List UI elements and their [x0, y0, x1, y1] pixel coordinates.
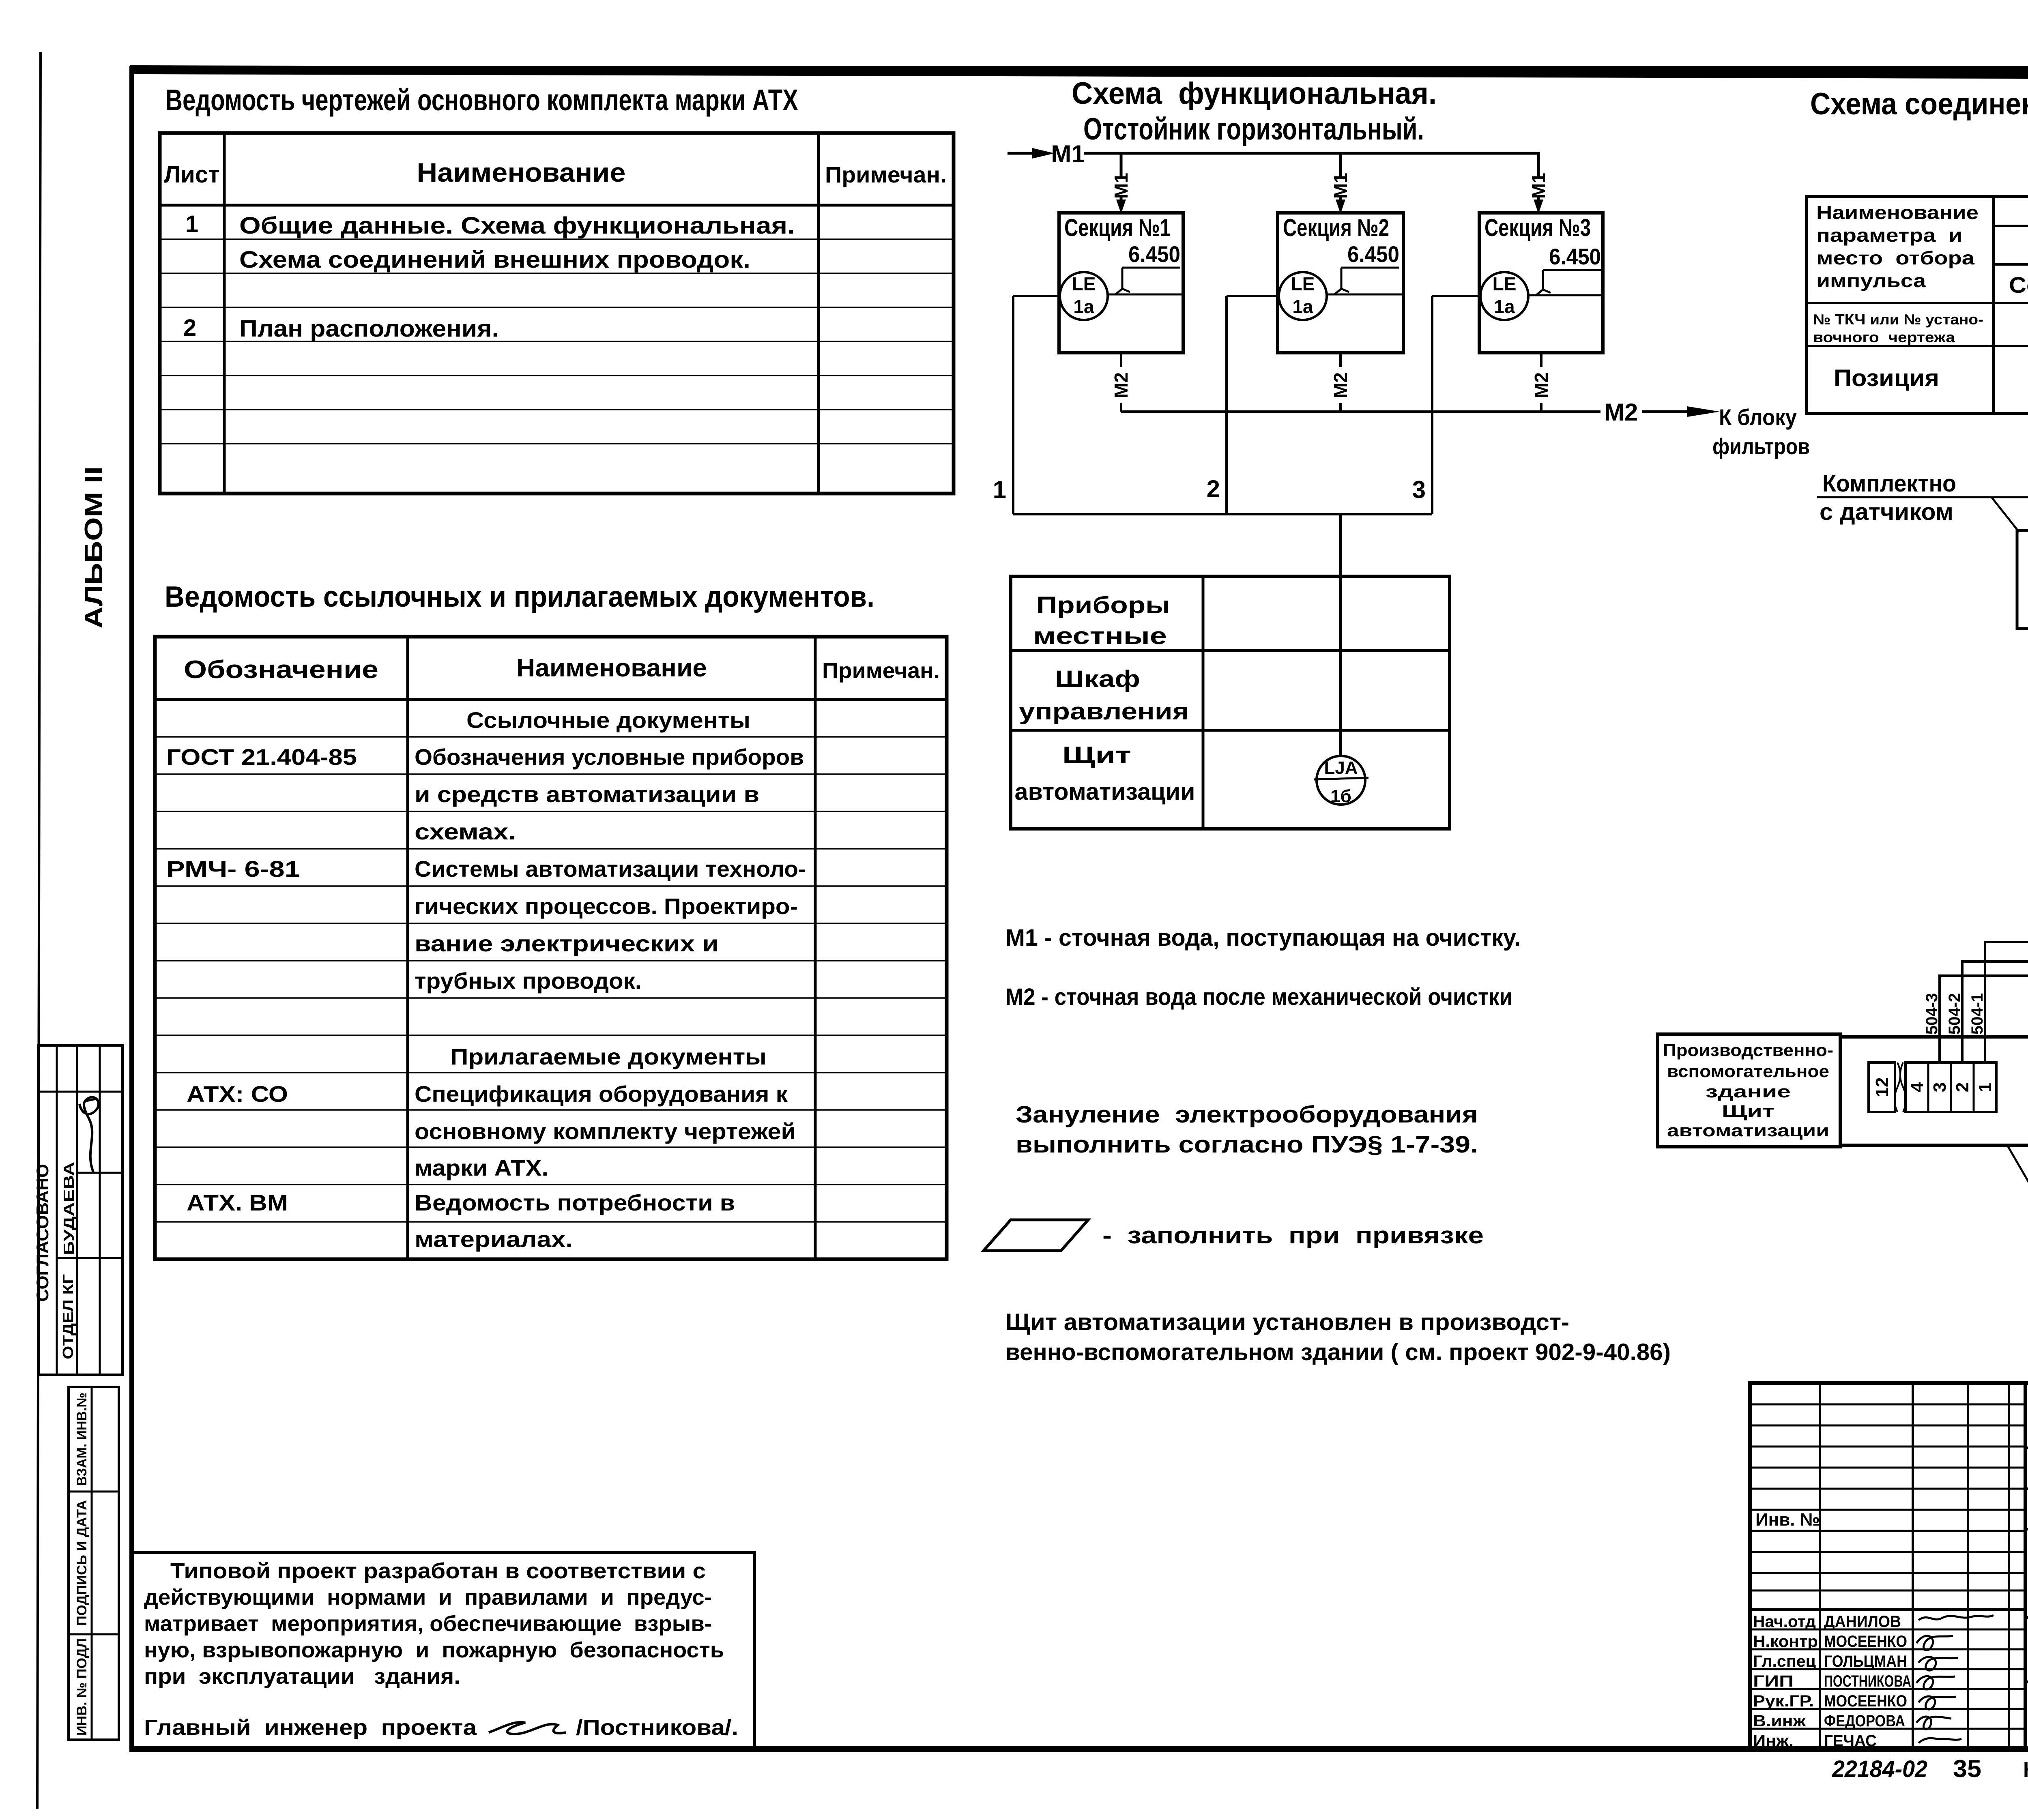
svg-text:Копировал Еремченко: Копировал Еремченко [2023, 1758, 2028, 1782]
sidebar upper block (Согласовано) [39, 1045, 122, 1375]
wire from LE3 to riser 3 [1432, 295, 1480, 297]
svg-text:вание электрических и: вание электрических и [415, 931, 719, 956]
location table (Приборы/Шкаф/Щит) [1011, 576, 1450, 829]
svg-text:2: 2 [1953, 1082, 1972, 1092]
terminal group 1 [1869, 1062, 1996, 1112]
riser wire 2 [1225, 296, 1228, 514]
svg-text:22184-02: 22184-02 [1832, 1756, 1927, 1782]
parameter table left head [1816, 202, 1979, 291]
wire M2 collector [1121, 410, 1600, 413]
svg-text:М1: М1 [1528, 173, 1549, 199]
svg-text:ПОСТНИКОВА: ПОСТНИКОВА [1824, 1672, 1911, 1690]
title block frame [1750, 1383, 2028, 1749]
svg-text:ГИП: ГИП [1753, 1672, 1794, 1690]
svg-text:1: 1 [993, 476, 1006, 503]
svg-text:ГОЛЬЦМАН: ГОЛЬЦМАН [1824, 1653, 1907, 1670]
svg-text:Гл.спец: Гл.спец [1753, 1653, 1816, 1670]
panel cabinet box [1840, 1037, 2028, 1145]
svg-text:действующими нормами и прав: действующими нормами и правилами и преду… [144, 1585, 712, 1610]
svg-text:Схема соединений внешних про: Схема соединений внешних проводок [1810, 87, 2028, 121]
svg-text:выполнить согласно ПУЭ§ 1-7-39: выполнить согласно ПУЭ§ 1-7-39. [1016, 1131, 1478, 1158]
callout LJA КИП поз.1б [2008, 1146, 2028, 1267]
title block left rows [1750, 1404, 2025, 1729]
svg-text:Нач.отд: Нач.отд [1753, 1613, 1816, 1631]
svg-text:Н.контр: Н.контр [1753, 1633, 1818, 1650]
svg-text:ИНВ. № ПОДЛ: ИНВ. № ПОДЛ [74, 1638, 90, 1736]
svg-text:12: 12 [1872, 1077, 1892, 1097]
wire from LE1 to riser 1 [1013, 295, 1060, 297]
svg-text:Общие данные. Схема функционал: Общие данные. Схема функциональная. [239, 212, 795, 239]
riser wire 3 [1431, 296, 1433, 514]
svg-text:Примечан.: Примечан. [825, 162, 947, 187]
riser wire 1 [1012, 296, 1014, 514]
svg-text:Спецификация оборудования к: Спецификация оборудования к [415, 1081, 788, 1107]
svg-text:ГОСТ 21.404-85: ГОСТ 21.404-85 [166, 744, 357, 770]
svg-text:1: 1 [185, 211, 198, 237]
svg-text:гических процессов. Проектиро-: гических процессов. Проектиро- [415, 893, 798, 919]
title block middle dividers [2025, 1383, 2028, 1749]
svg-text:/Постникова/.: /Постникова/. [576, 1715, 738, 1740]
svg-text:БУДАЕВА: БУДАЕВА [60, 1162, 77, 1255]
svg-text:Ссылочные документы: Ссылочные документы [466, 707, 750, 733]
wire M1 drop to section 3 [1528, 152, 1549, 214]
svg-text:Секция №3: Секция №3 [1484, 214, 1591, 241]
svg-text:Примечан.: Примечан. [822, 659, 940, 683]
symbol parallelogram legend [984, 1220, 1088, 1251]
svg-text:Ведомость ссылочных и прилагае: Ведомость ссылочных и прилагаемых докуме… [165, 581, 874, 613]
svg-text:В.инж: В.инж [1753, 1712, 1806, 1730]
instrument LE 1a section 1 [1060, 272, 1108, 320]
svg-text:местные: местные [1033, 623, 1167, 649]
panel label box [1658, 1034, 1840, 1147]
svg-text:и средств автоматизации в: и средств автоматизации в [415, 781, 759, 807]
svg-text:LE: LE [1493, 273, 1517, 294]
wire M2 outlet section 1 [1111, 353, 1132, 412]
wire M1 drop to section 2 [1330, 153, 1351, 214]
bus 3 (wires -3) [1940, 976, 2028, 1062]
svg-text:Ведомость чертежей основного к: Ведомость чертежей основного комплекта м… [165, 83, 798, 117]
svg-text:Зануление электрооборудования: Зануление электрооборудования [1016, 1101, 1478, 1128]
svg-text:1б: 1б [1330, 786, 1351, 806]
svg-text:LE: LE [1291, 273, 1315, 294]
svg-text:М1: М1 [1111, 173, 1132, 199]
svg-text:Секция №1: Секция №1 [1064, 214, 1171, 241]
svg-text:фильтров: фильтров [1712, 434, 1810, 459]
svg-text:место отбора: место отбора [1816, 247, 1975, 268]
svg-text:504-2: 504-2 [1946, 993, 1964, 1034]
svg-text:ФЕДОРОВА: ФЕДОРОВА [1824, 1712, 1905, 1730]
svg-text:М1: М1 [1330, 173, 1351, 199]
svg-text:4: 4 [1907, 1082, 1927, 1092]
instrument LE 1a section 2 [1279, 272, 1327, 320]
svg-text:ВЗАМ. ИНВ.№: ВЗАМ. ИНВ.№ [74, 1393, 90, 1486]
level line section 3 [1528, 294, 1603, 296]
wire M1 inlet arrow [1008, 148, 1055, 159]
svg-text:Инв. №: Инв. № [1755, 1510, 1820, 1530]
level mark 6.450 section 3 [1536, 244, 1602, 295]
wire M1 drop to section 1 [1111, 153, 1132, 214]
svg-text:ПОДПИСЬ И ДАТА: ПОДПИСЬ И ДАТА [74, 1500, 90, 1626]
instrument LJA 1б panel bubble [1314, 756, 1368, 806]
svg-text:МОСЕЕНКО: МОСЕЕНКО [1824, 1692, 1907, 1710]
svg-text:Приборы: Приборы [1036, 592, 1170, 618]
level mark 6.450 section 2 [1334, 241, 1399, 294]
svg-text:3: 3 [1930, 1082, 1950, 1092]
svg-text:Шкаф: Шкаф [1055, 666, 1140, 692]
svg-text:2: 2 [183, 315, 196, 341]
svg-text:Секция №2: Секция №2 [1283, 214, 1389, 241]
signature squiggles [1916, 1615, 1994, 1743]
svg-text:1a: 1a [1073, 296, 1094, 317]
svg-text:схемах.: схемах. [415, 819, 516, 844]
disclaimer box [132, 1552, 754, 1749]
wire M2 outlet section 2 [1330, 353, 1351, 412]
svg-text:МОСЕЕНКО: МОСЕЕНКО [1824, 1633, 1907, 1650]
wire from LE2 to riser 2 [1227, 295, 1279, 297]
leader to box CK1 [1991, 497, 2019, 532]
svg-text:венно-вспомогательном здании (: венно-вспомогательном здании ( см. проек… [1005, 1339, 1671, 1365]
svg-text:СОГЛАСОВАНО: СОГЛАСОВАНО [33, 1164, 52, 1302]
supply boundary line [1817, 496, 2028, 498]
svg-text:Инж.: Инж. [1753, 1732, 1794, 1750]
svg-text:при эксплуатации здания.: при эксплуатации здания. [144, 1664, 460, 1689]
svg-text:основному комплекту чертежей: основному комплекту чертежей [415, 1118, 796, 1144]
section box 2 [1278, 213, 1403, 353]
svg-text:РМЧ- 6-81: РМЧ- 6-81 [166, 856, 300, 882]
svg-text:АТХ: СО: АТХ: СО [187, 1081, 288, 1107]
svg-text:6.450: 6.450 [1549, 244, 1601, 269]
bus 1 (wires -1) [1985, 942, 2028, 1062]
svg-text:1a: 1a [1494, 296, 1515, 317]
level line section 2 [1327, 294, 1403, 296]
svg-text:Щит автоматизации установлен в: Щит автоматизации установлен в производс… [1005, 1309, 1569, 1335]
svg-text:автоматизации: автоматизации [1667, 1121, 1829, 1140]
level line section 1 [1108, 294, 1183, 296]
svg-text:Главный инженер проекта: Главный инженер проекта [144, 1715, 477, 1740]
wire M2 outlet arrow [1642, 406, 1720, 417]
svg-text:марки АТХ.: марки АТХ. [415, 1155, 548, 1180]
svg-text:М1 - сточная вода, поступающая: М1 - сточная вода, поступающая на очистк… [1005, 925, 1521, 951]
svg-text:504-3: 504-3 [1923, 993, 1941, 1034]
instrument LE 1a section 3 [1480, 272, 1528, 320]
svg-text:Лист: Лист [164, 161, 219, 188]
svg-text:матривает мероприятия, обеспе: матривает мероприятия, обеспечивающие вз… [144, 1612, 712, 1636]
svg-text:параметра и: параметра и [1816, 225, 1962, 246]
sheet outer left trim line [37, 52, 41, 1809]
svg-text:LJA: LJA [1324, 758, 1358, 778]
riser collector bus [1013, 513, 1432, 515]
svg-text:Щит: Щит [1722, 1101, 1774, 1120]
svg-text:трубных проводок.: трубных проводок. [415, 968, 642, 994]
svg-text:1a: 1a [1292, 296, 1313, 317]
svg-text:материалах.: материалах. [415, 1226, 573, 1252]
sidebar signature squiggle [79, 1097, 99, 1172]
svg-text:Отстойник горизонтальный.: Отстойник горизонтальный. [1083, 112, 1424, 146]
svg-text:Наименование: Наименование [516, 654, 707, 682]
svg-text:Обозначения условные приборов: Обозначения условные приборов [415, 744, 804, 770]
svg-text:Рук.ГР.: Рук.ГР. [1753, 1692, 1814, 1710]
svg-text:ДАНИЛОВ: ДАНИЛОВ [1824, 1613, 1901, 1631]
svg-text:Обозначение: Обозначение [184, 656, 378, 684]
svg-text:- заполнить при привязке: - заполнить при привязке [1102, 1222, 1484, 1249]
svg-text:управления: управления [1019, 698, 1189, 725]
chief engineer signature [489, 1722, 566, 1734]
svg-text:М1: М1 [1051, 140, 1085, 167]
svg-text:М2: М2 [1111, 372, 1132, 398]
signature rows labels [1753, 1613, 1818, 1750]
svg-text:вспомогательное: вспомогательное [1667, 1062, 1829, 1081]
svg-text:К блоку: К блоку [1719, 404, 1797, 430]
svg-text:АЛЬБОМ II: АЛЬБОМ II [80, 466, 108, 629]
section box 3 [1479, 213, 1603, 353]
svg-text:Позиция: Позиция [1834, 365, 1939, 391]
wire M1 header line [1084, 152, 1538, 155]
svg-text:ГЕЧАС: ГЕЧАС [1824, 1732, 1877, 1750]
wire down to panel [1339, 514, 1342, 755]
svg-text:Наименование: Наименование [417, 157, 626, 187]
svg-text:Ведомость потребности в: Ведомость потребности в [415, 1190, 735, 1215]
svg-text:Щит: Щит [1062, 742, 1131, 768]
wire M2 outlet section 3 [1531, 353, 1552, 412]
svg-text:№ ТКЧ или № устано-: № ТКЧ или № устано- [1813, 311, 1983, 328]
svg-text:ОТДЕЛ КГ: ОТДЕЛ КГ [60, 1274, 76, 1359]
svg-text:План расположения.: План расположения. [239, 315, 499, 342]
svg-text:здание: здание [1706, 1082, 1791, 1101]
svg-text:автоматизации: автоматизации [1015, 779, 1195, 805]
svg-text:35: 35 [1953, 1755, 1981, 1782]
svg-text:Секция №1: Секция №1 [2009, 272, 2028, 298]
svg-text:Прилагаемые документы: Прилагаемые документы [450, 1044, 767, 1069]
svg-text:6.450: 6.450 [1347, 241, 1399, 267]
svg-text:1: 1 [1975, 1082, 1995, 1092]
svg-text:Типовой проект разработан в со: Типовой проект разработан в соответствии… [170, 1559, 706, 1583]
table 1 (sheet list) grid [160, 133, 954, 494]
svg-text:Комплектно: Комплектно [1822, 470, 1956, 497]
bus 2 (wires -2) [1962, 962, 2028, 1062]
svg-text:LE: LE [1072, 273, 1096, 294]
parameter table grid [1807, 197, 2028, 414]
svg-text:М2: М2 [1531, 372, 1552, 398]
level mark 6.450 section 1 [1115, 241, 1180, 294]
svg-text:ную, взрывопожарную и пожарн: ную, взрывопожарную и пожарную безопасно… [144, 1638, 724, 1662]
sidebar dash mark [86, 1099, 96, 1101]
svg-text:импульса: импульса [1816, 270, 1926, 291]
section box 1 [1059, 213, 1183, 353]
svg-text:504-1: 504-1 [1968, 993, 1986, 1034]
svg-text:3: 3 [1412, 476, 1426, 503]
signature rows names [1824, 1613, 1911, 1750]
svg-text:вочного чертежа: вочного чертежа [1813, 329, 1955, 346]
wire labels group 1 [1923, 993, 1986, 1034]
svg-text:6.450: 6.450 [1128, 241, 1180, 267]
svg-text:Схема функциональная.: Схема функциональная. [1072, 76, 1437, 111]
svg-text:Схема соединений внешних прово: Схема соединений внешних проводок. [239, 247, 750, 273]
svg-text:Производственно-: Производственно- [1663, 1041, 1833, 1060]
svg-text:Наименование: Наименование [1816, 202, 1979, 223]
svg-text:М2 - сточная вода после механи: М2 - сточная вода после механической очи… [1005, 984, 1512, 1010]
table 2 (reference docs) grid [155, 637, 947, 1259]
svg-text:2: 2 [1207, 475, 1220, 502]
svg-text:Системы автоматизации техноло-: Системы автоматизации техноло- [415, 856, 806, 882]
sidebar lower block (Взам/Подпись/Инв) [69, 1387, 119, 1740]
svg-text:М2: М2 [1330, 372, 1351, 398]
box CK1 [2017, 530, 2028, 629]
svg-text:АТХ. ВМ: АТХ. ВМ [187, 1190, 288, 1215]
svg-text:М2: М2 [1604, 399, 1638, 426]
svg-text:с датчиком: с датчиком [1820, 499, 1953, 525]
